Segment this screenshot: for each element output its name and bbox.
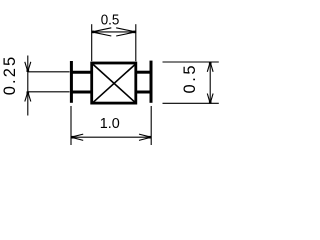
- right terminal end cap: [150, 61, 153, 103]
- left terminal end cap: [70, 61, 73, 103]
- top dimension extension line right: [135, 24, 137, 61]
- bottom dimension left arrowhead: [71, 134, 83, 140]
- left dimension extension line lower: [28, 91, 70, 93]
- svg-text:1.0: 1.0: [100, 116, 120, 132]
- svg-text:0.5: 0.5: [101, 12, 120, 28]
- left dimension extension line upper: [28, 71, 70, 73]
- top dimension extension line left: [91, 24, 93, 61]
- body diagonal 1: [93, 64, 136, 103]
- left dimension lower arrowhead (points up): [25, 91, 31, 101]
- left terminal bottom lead: [71, 91, 91, 94]
- right terminal top lead: [136, 71, 151, 74]
- body diagonal 2: [93, 64, 136, 103]
- top dimension right arrowhead: [116, 28, 136, 36]
- svg-text:0.5: 0.5: [181, 65, 199, 93]
- bottom dimension line: [71, 136, 151, 138]
- component body square: [92, 63, 136, 103]
- svg-text:0.25: 0.25: [1, 57, 19, 96]
- left terminal top lead: [71, 71, 91, 74]
- right terminal bottom lead: [136, 91, 151, 94]
- right dimension extension line upper: [163, 61, 219, 63]
- bottom dimension extension line right: [150, 106, 152, 145]
- top dimension line: [92, 31, 136, 33]
- bottom dimension extension line left: [70, 106, 72, 145]
- right dimension top arrowhead (points up): [207, 62, 213, 72]
- right dimension extension line lower: [163, 102, 219, 104]
- bottom dimension right arrowhead: [139, 134, 151, 140]
- left dimension line (0.25): [27, 56, 29, 116]
- top dimension left arrowhead: [91, 28, 111, 36]
- right dimension line: [209, 62, 211, 103]
- right dimension bottom arrowhead (points down): [207, 94, 213, 104]
- left dimension upper arrowhead (points down): [25, 62, 31, 72]
